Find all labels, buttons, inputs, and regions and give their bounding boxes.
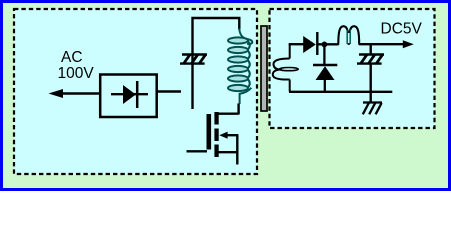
diode D3 (shunt) triangle <box>316 66 335 80</box>
primary-side dashed enclosure <box>14 9 257 174</box>
wire bottom rail <box>289 91 392 93</box>
diode D1 (rectifier diode) <box>123 85 136 104</box>
arrow DC output (points right) <box>403 40 414 48</box>
wire capacitor to ground <box>370 64 372 103</box>
outer blue frame <box>2 2 450 190</box>
transistor Q1 source lead <box>236 152 238 164</box>
transformer T1 secondary winding <box>273 44 298 92</box>
svg-text:100V: 100V <box>58 65 95 82</box>
wire node down to diode D3 <box>323 44 325 64</box>
transistor Q1 gate bar <box>207 114 212 150</box>
transformer T1 primary winding <box>228 29 252 105</box>
diode D1 wire <box>111 93 148 95</box>
wire L1 to output arrow <box>359 43 404 45</box>
secondary-side dashed enclosure <box>270 9 435 128</box>
transistor Q1 drain stub <box>219 112 239 114</box>
outer background <box>0 0 451 191</box>
wire diode D3 to bottom rail <box>324 80 326 92</box>
ground (slash style) <box>363 103 382 115</box>
inductor L1 <box>338 26 359 45</box>
arrow AC input (points left) <box>49 89 64 98</box>
rectifier box <box>100 75 157 118</box>
capacitor C1 (hatched symbol) <box>180 54 207 64</box>
diode D3 (shunt) cathode bar <box>313 64 337 66</box>
transformer core <box>261 26 267 111</box>
wire top bus <box>193 18 240 109</box>
node junction dot <box>322 42 328 48</box>
transistor Q1 MOSFET drain lead <box>237 104 239 115</box>
transistor Q1 channel segments <box>214 112 218 125</box>
wire rectifier output <box>157 90 181 92</box>
capacitor C2 (hatched symbol) <box>357 54 384 64</box>
transistor Q1 gate lead wire <box>187 150 208 152</box>
wire diode to node <box>317 43 338 45</box>
svg-text:DC5V: DC5V <box>381 21 423 38</box>
transistor Q1 body arrow <box>219 132 227 139</box>
wire output node down <box>370 45 372 55</box>
diode D2 (series rectifier) <box>303 36 316 53</box>
svg-text:AC: AC <box>61 49 83 66</box>
transistor Q1 source stub <box>219 151 239 153</box>
wire secondary top to diode <box>289 43 304 45</box>
